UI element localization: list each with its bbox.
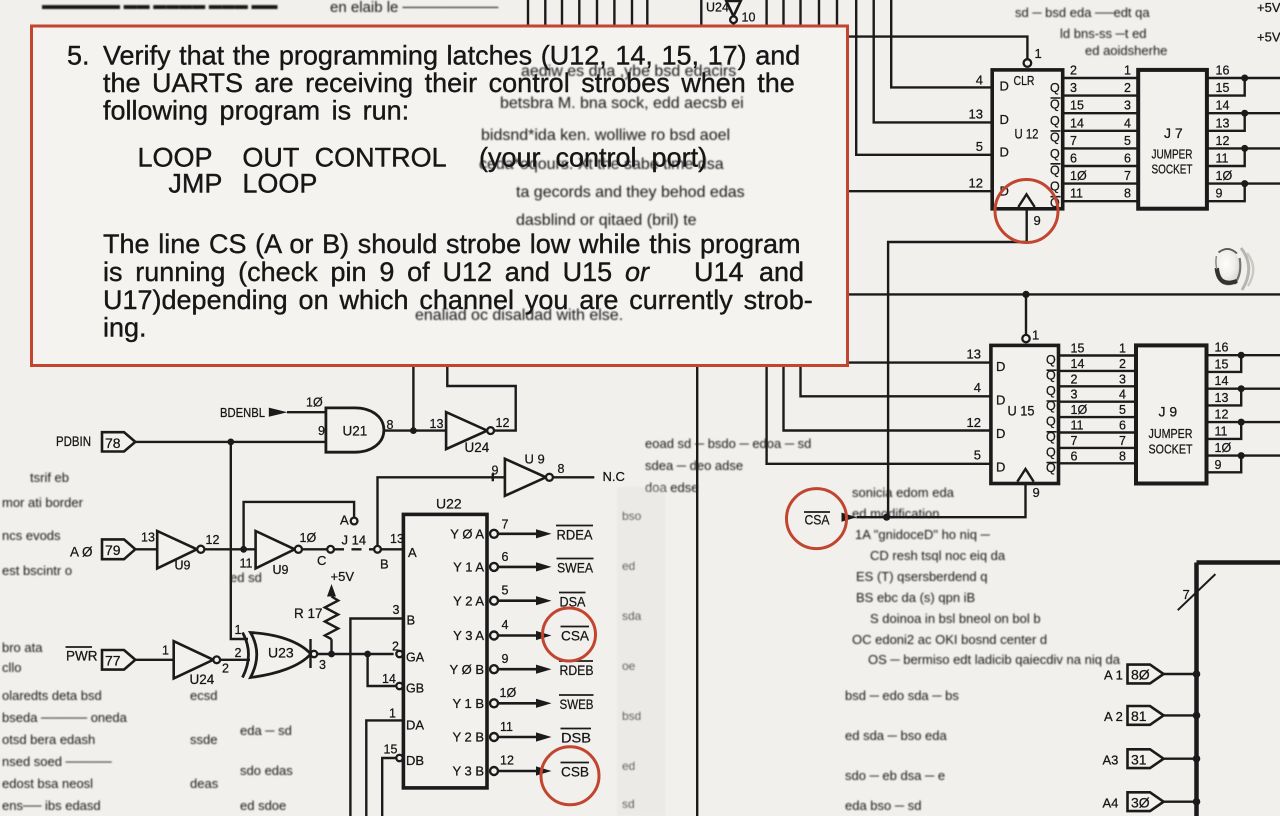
svg-text:A: A: [340, 513, 349, 528]
svg-text:81: 81: [1131, 708, 1147, 724]
svg-text:eoad sd ─ bsdo ─ edoa ─ sd: eoad sd ─ bsdo ─ edoa ─ sd: [645, 436, 811, 451]
svg-text:and: and: [759, 257, 804, 287]
svg-text:cllo: cllo: [2, 660, 22, 675]
svg-text:D: D: [996, 460, 1005, 475]
svg-text:ed sd: ed sd: [230, 570, 262, 585]
svg-text:DB: DB: [406, 753, 424, 768]
svg-text:U24: U24: [190, 672, 215, 687]
svg-text:SOCKET: SOCKET: [1149, 442, 1193, 457]
svg-text:Q: Q: [1046, 384, 1056, 398]
svg-text:12: 12: [967, 415, 981, 430]
svg-text:A 2: A 2: [1104, 709, 1123, 724]
svg-text:9: 9: [1216, 187, 1223, 201]
svg-text:6: 6: [1071, 449, 1078, 463]
svg-text:bsd ─ edo sda ─ bs: bsd ─ edo sda ─ bs: [845, 688, 959, 703]
svg-text:sd: sd: [622, 797, 635, 811]
svg-text:ed: ed: [622, 759, 635, 773]
svg-text:S doinoa in bsl bneol on: S doinoa in bsl bneol on bol b: [870, 611, 1041, 626]
svg-text:10: 10: [742, 11, 756, 25]
svg-text:sda: sda: [622, 609, 642, 623]
svg-text:14: 14: [1215, 374, 1229, 388]
svg-text:7: 7: [1071, 434, 1078, 448]
svg-text:CSA: CSA: [561, 628, 590, 644]
svg-text:is running (check pin 9 of U12: is running (check pin 9 of U12 and U15: [103, 257, 612, 287]
svg-text:1A "gnidoceD" ho niq ─: 1A "gnidoceD" ho niq ─: [855, 527, 991, 542]
svg-text:1Ø: 1Ø: [1070, 169, 1087, 183]
svg-text:4: 4: [502, 618, 509, 632]
svg-text:R 17: R 17: [294, 606, 323, 621]
svg-text:15: 15: [384, 743, 398, 757]
svg-text:4: 4: [976, 73, 983, 88]
svg-text:CSB: CSB: [561, 764, 589, 780]
svg-text:▬▬▬▬▬▬ ▬▬ ▬▬▬▬ ▬▬▬ ▬▬: ▬▬▬▬▬▬ ▬▬ ▬▬▬▬ ▬▬▬ ▬▬: [42, 0, 277, 12]
svg-text:2: 2: [235, 646, 242, 660]
svg-text:bseda ───── oneda: bseda ───── oneda: [2, 710, 128, 725]
svg-text:following program is run:: following program is run:: [103, 96, 409, 126]
svg-text:J 7: J 7: [1164, 125, 1183, 141]
svg-text:14: 14: [1071, 357, 1085, 371]
svg-text:79: 79: [105, 542, 121, 558]
svg-text:U 12: U 12: [1015, 126, 1039, 142]
svg-text:U9: U9: [273, 563, 289, 577]
svg-text:sdea ─ deo adse: sdea ─ deo adse: [645, 458, 743, 473]
svg-text:J 9: J 9: [1159, 404, 1178, 420]
svg-text:RDEA: RDEA: [557, 527, 594, 543]
svg-text:D: D: [996, 393, 1005, 408]
svg-text:7: 7: [1119, 434, 1126, 448]
svg-text:C: C: [317, 553, 326, 568]
svg-text:11: 11: [1071, 419, 1084, 433]
svg-text:3: 3: [1071, 388, 1078, 402]
svg-text:15: 15: [1216, 81, 1230, 95]
svg-text:12: 12: [1216, 134, 1230, 148]
svg-text:ld bns-ss ─t ed: ld bns-ss ─t ed: [1060, 26, 1147, 41]
svg-text:sdo edas: sdo edas: [240, 763, 293, 778]
svg-text:5: 5: [1119, 403, 1126, 417]
svg-text:3: 3: [319, 658, 326, 672]
svg-text:12: 12: [1215, 408, 1229, 422]
svg-text:GB: GB: [406, 682, 424, 696]
svg-text:+5V: +5V: [331, 569, 355, 584]
svg-text:B: B: [380, 557, 389, 572]
svg-text:ecsd: ecsd: [190, 688, 217, 703]
svg-text:12: 12: [969, 176, 983, 191]
svg-text:1Ø: 1Ø: [1071, 403, 1088, 417]
svg-text:7: 7: [1183, 587, 1190, 602]
svg-text:ing.: ing.: [103, 313, 147, 343]
svg-text:3: 3: [1070, 81, 1077, 95]
svg-text:8: 8: [1119, 449, 1126, 463]
svg-text:ens── ibs edasd: ens── ibs edasd: [2, 798, 101, 813]
svg-text:11: 11: [1070, 187, 1083, 201]
svg-text:4: 4: [1119, 388, 1126, 402]
svg-text:U21: U21: [343, 424, 368, 439]
svg-text:7: 7: [1124, 169, 1131, 183]
svg-text:D: D: [1000, 112, 1009, 127]
svg-text:Q: Q: [1050, 81, 1060, 95]
svg-text:1Ø: 1Ø: [306, 396, 323, 410]
svg-text:2: 2: [1124, 81, 1131, 95]
svg-text:Y 2 A: Y 2 A: [453, 594, 484, 609]
svg-text:9: 9: [318, 424, 325, 438]
svg-text:sd ─ bsd eda ──edt qa: sd ─ bsd eda ──edt qa: [1015, 5, 1150, 20]
svg-text:Y 3 B: Y 3 B: [452, 764, 484, 779]
svg-text:1: 1: [1035, 46, 1042, 61]
svg-text:bso: bso: [622, 509, 642, 523]
svg-text:est bscintr o: est bscintr o: [2, 563, 72, 578]
svg-text:nsed soed ─────: nsed soed ─────: [2, 754, 112, 769]
svg-text:the UARTS are receiving their: the UARTS are receiving their control st…: [103, 68, 795, 98]
svg-text:15: 15: [1070, 99, 1084, 113]
svg-text:U 9: U 9: [525, 452, 545, 467]
svg-text:U24: U24: [465, 440, 490, 455]
svg-text:13: 13: [141, 531, 155, 545]
svg-text:14: 14: [1070, 116, 1084, 130]
svg-text:ed sdoe: ed sdoe: [240, 798, 286, 813]
svg-text:LOOP: LOOP: [242, 169, 317, 199]
svg-text:deas: deas: [190, 776, 219, 791]
svg-text:CLR: CLR: [1014, 73, 1035, 88]
svg-text:9: 9: [1033, 485, 1040, 500]
svg-text:Verify that the programming la: Verify that the programming latches (U12…: [103, 41, 800, 71]
svg-text:U22: U22: [436, 496, 462, 512]
svg-text:1: 1: [1119, 342, 1126, 356]
svg-text:13: 13: [967, 347, 981, 362]
svg-text:DA: DA: [406, 718, 424, 733]
svg-text:sdo ─ eb dsa ─ e: sdo ─ eb dsa ─ e: [845, 768, 945, 783]
svg-text:en elaib le ─────────: en elaib le ─────────: [330, 0, 499, 16]
svg-text:5: 5: [974, 448, 981, 463]
svg-text:tsrif eb: tsrif eb: [30, 470, 69, 485]
svg-text:D: D: [996, 426, 1005, 441]
svg-text:3: 3: [393, 603, 400, 617]
svg-text:SOCKET: SOCKET: [1152, 162, 1193, 177]
svg-text:6: 6: [1119, 419, 1126, 433]
svg-text:1: 1: [1124, 64, 1131, 78]
svg-text:BS ebc da (s) qpn iB: BS ebc da (s) qpn iB: [856, 590, 975, 605]
svg-text:SWEB: SWEB: [560, 696, 594, 712]
svg-text:4: 4: [974, 380, 981, 395]
svg-text:ssde: ssde: [190, 732, 217, 747]
svg-text:Y 3 A: Y 3 A: [453, 628, 484, 643]
svg-text:6: 6: [502, 550, 509, 564]
svg-text:2: 2: [392, 640, 399, 654]
svg-text:ed modification: ed modification: [852, 506, 939, 521]
svg-text:5: 5: [502, 584, 509, 598]
svg-text:11: 11: [500, 720, 513, 734]
svg-text:Q: Q: [1050, 163, 1060, 177]
svg-text:ed sda ─ bso eda: ed sda ─ bso eda: [845, 728, 947, 743]
svg-text:Y Ø B: Y Ø B: [450, 662, 484, 677]
svg-text:D: D: [1000, 145, 1009, 160]
svg-text:2: 2: [1119, 357, 1126, 371]
svg-text:31: 31: [1131, 752, 1147, 768]
svg-text:11: 11: [1216, 152, 1229, 166]
svg-text:ES (T) qsersberdend q: ES (T) qsersberdend q: [856, 569, 988, 584]
svg-text:5: 5: [976, 139, 983, 154]
svg-text:+5V: +5V: [1257, 0, 1280, 15]
svg-text:+5V: +5V: [1257, 30, 1280, 45]
svg-text:12: 12: [496, 416, 510, 430]
svg-text:Q: Q: [1046, 353, 1056, 367]
svg-text:Y 1 A: Y 1 A: [453, 560, 484, 575]
svg-text:1: 1: [162, 644, 169, 658]
svg-text:11: 11: [240, 557, 253, 571]
svg-text:eda bso ─ sd: eda bso ─ sd: [845, 798, 921, 813]
svg-text:U24: U24: [706, 1, 729, 15]
svg-text:Q: Q: [1050, 130, 1060, 144]
svg-text:9: 9: [1215, 458, 1222, 472]
svg-text:1Ø: 1Ø: [1216, 169, 1233, 183]
svg-text:(your control port): (your control port): [479, 143, 707, 173]
svg-text:U14: U14: [694, 257, 744, 287]
svg-text:U23: U23: [268, 645, 294, 661]
svg-text:doa edse: doa edse: [645, 480, 699, 495]
svg-text:or: or: [625, 257, 650, 287]
svg-text:9: 9: [1034, 213, 1041, 228]
svg-text:Q: Q: [1050, 147, 1060, 161]
svg-text:DSB: DSB: [561, 730, 591, 746]
svg-text:ed: ed: [622, 559, 635, 573]
svg-text:78: 78: [105, 435, 121, 451]
svg-text:2: 2: [1070, 64, 1077, 78]
svg-text:9: 9: [492, 464, 499, 478]
svg-text:sonicia edom eda: sonicia edom eda: [852, 485, 955, 500]
svg-text:GA: GA: [406, 651, 425, 665]
svg-text:edost bsa neosl: edost bsa neosl: [2, 776, 93, 791]
svg-text:2: 2: [1071, 372, 1078, 386]
svg-text:6: 6: [1070, 152, 1077, 166]
svg-text:N.C: N.C: [603, 469, 625, 484]
svg-text:5: 5: [1124, 134, 1131, 148]
svg-text:1: 1: [235, 623, 242, 637]
svg-text:The line CS (A or B) should st: The line CS (A or B) should strobe low w…: [103, 229, 801, 259]
svg-text:RDEB: RDEB: [560, 662, 594, 678]
svg-text:15: 15: [1071, 342, 1085, 356]
svg-text:ncs evods: ncs evods: [2, 528, 61, 543]
svg-text:7: 7: [1070, 134, 1077, 148]
svg-text:JUMPER: JUMPER: [1149, 426, 1193, 441]
svg-text:bsd: bsd: [622, 709, 641, 723]
svg-text:4: 4: [1124, 116, 1131, 130]
svg-text:2: 2: [222, 662, 229, 676]
svg-text:bro ata: bro ata: [2, 640, 43, 655]
svg-text:BDENBL: BDENBL: [220, 405, 265, 420]
svg-text:otsd bera edash: otsd bera edash: [2, 732, 95, 747]
svg-text:8Ø: 8Ø: [1131, 667, 1150, 683]
svg-text:mor ati border: mor ati border: [2, 495, 84, 510]
svg-text:JUMPER: JUMPER: [1152, 147, 1193, 162]
svg-text:JMP: JMP: [168, 169, 222, 199]
svg-text:bidsnd*ida ken. wolliwe ro bsd: bidsnd*ida ken. wolliwe ro bsd aoel: [481, 127, 730, 144]
svg-text:1: 1: [1032, 328, 1039, 343]
svg-text:1Ø: 1Ø: [300, 531, 317, 545]
svg-text:CSA: CSA: [805, 512, 831, 528]
svg-text:D: D: [996, 359, 1005, 374]
svg-text:OC edoni2 ac OKI bosnd ce: OC edoni2 ac OKI bosnd center d: [852, 632, 1047, 647]
svg-text:CONTROL: CONTROL: [315, 143, 447, 173]
svg-text:11: 11: [1215, 424, 1228, 438]
svg-text:14: 14: [382, 672, 396, 686]
svg-text:12: 12: [206, 533, 220, 547]
svg-text:5.: 5.: [67, 41, 90, 71]
svg-text:Y Ø A: Y Ø A: [450, 527, 484, 542]
svg-text:13: 13: [969, 107, 983, 122]
svg-text:9: 9: [502, 652, 509, 666]
svg-text:Q: Q: [1046, 445, 1056, 459]
svg-text:J 14: J 14: [342, 533, 367, 548]
svg-text:D: D: [1000, 79, 1009, 94]
svg-text:A4: A4: [1103, 796, 1119, 811]
svg-text:Y 1 B: Y 1 B: [452, 696, 484, 711]
svg-text:1Ø: 1Ø: [500, 686, 517, 700]
svg-text:A 1: A 1: [1104, 668, 1123, 683]
svg-text:16: 16: [1215, 341, 1229, 355]
svg-text:oe: oe: [622, 659, 636, 673]
svg-text:Q: Q: [1046, 415, 1056, 429]
svg-text:OS ─ bermiso edt ladicib q: OS ─ bermiso edt ladicib qaiecdiv na niq…: [868, 652, 1121, 667]
svg-text:A3: A3: [1103, 753, 1119, 768]
svg-text:8: 8: [1124, 187, 1131, 201]
svg-text:Q: Q: [1050, 98, 1060, 112]
svg-text:13: 13: [1215, 391, 1229, 405]
svg-text:U 15: U 15: [1008, 403, 1035, 419]
svg-text:14: 14: [1216, 99, 1230, 113]
svg-text:Y 2 B: Y 2 B: [452, 730, 484, 745]
svg-text:15: 15: [1215, 357, 1229, 371]
svg-text:ta gecords and they behod edas: ta gecords and they behod edas: [516, 184, 745, 201]
svg-text:8: 8: [387, 418, 394, 432]
svg-text:13: 13: [430, 417, 444, 431]
svg-text:eda ─ sd: eda ─ sd: [240, 723, 292, 738]
svg-text:dasblind or qitaed (bril) te: dasblind or qitaed (bril) te: [516, 212, 697, 229]
svg-text:16: 16: [1216, 64, 1230, 78]
svg-text:12: 12: [500, 754, 514, 768]
svg-text:olaredts deta bsd: olaredts deta bsd: [2, 688, 102, 703]
svg-text:3: 3: [1119, 372, 1126, 386]
svg-text:3Ø: 3Ø: [1131, 795, 1150, 811]
svg-text:7: 7: [502, 518, 509, 532]
svg-text:8: 8: [558, 462, 565, 476]
svg-text:13: 13: [1216, 116, 1230, 130]
svg-text:3: 3: [1124, 99, 1131, 113]
svg-text:PDBIN: PDBIN: [56, 434, 91, 449]
svg-text:CD resh tsql noc eiq da: CD resh tsql noc eiq da: [870, 548, 1006, 563]
svg-text:A: A: [408, 545, 417, 560]
svg-text:1Ø: 1Ø: [1215, 441, 1232, 455]
svg-text:6: 6: [1124, 152, 1131, 166]
svg-text:77: 77: [105, 653, 121, 669]
svg-text:SWEA: SWEA: [557, 560, 594, 576]
svg-text:Q: Q: [1050, 114, 1060, 128]
svg-text:ed aoidsherhe: ed aoidsherhe: [1085, 43, 1167, 58]
svg-text:13: 13: [390, 532, 404, 546]
svg-text:1: 1: [389, 707, 396, 721]
svg-text:PWR: PWR: [66, 649, 98, 664]
svg-text:U17)depending on which channel: U17)depending on which channel you are c…: [103, 285, 813, 315]
svg-text:U9: U9: [175, 559, 191, 573]
svg-text:A Ø: A Ø: [70, 545, 93, 560]
svg-text:B: B: [407, 613, 416, 628]
